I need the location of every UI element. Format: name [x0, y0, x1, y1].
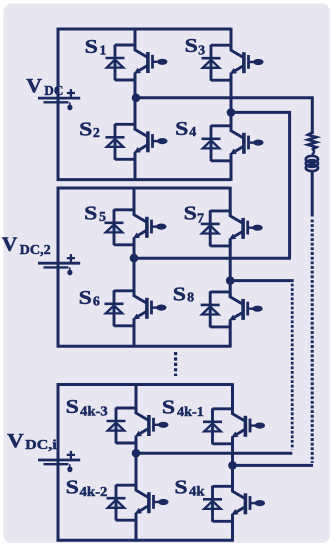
label VDC	[26, 75, 63, 98]
wire: S4k emitter to bottom rail	[231, 517, 234, 542]
wire: S4k-2 emitter to bottom rail	[135, 516, 138, 542]
node B (S3/S4 midpoint)	[227, 108, 236, 117]
label S4k	[174, 476, 204, 499]
switch S5 (IGBT with anti-parallel diode)	[105, 209, 167, 245]
wire: bridge2 top rail	[57, 187, 231, 190]
switch S4k-1 (IGBT with anti-parallel diode)	[203, 408, 265, 444]
switch S6 (IGBT with anti-parallel diode)	[105, 290, 167, 326]
node E (S4k-3/S4k-2 midpoint)	[132, 449, 141, 458]
wire: below inductor	[311, 170, 314, 217]
svg-text:5: 5	[99, 210, 106, 225]
svg-text:S: S	[84, 203, 97, 225]
wire: S3 collector	[230, 28, 233, 51]
wire: dotted load return	[311, 220, 314, 464]
wire: S5 collector	[133, 187, 136, 215]
node A (S1/S2 midpoint)	[132, 94, 141, 103]
label S4k-1	[162, 397, 204, 421]
svg-text:6: 6	[93, 294, 100, 309]
svg-text:S: S	[79, 287, 92, 309]
switch S1 (IGBT with anti-parallel diode)	[106, 45, 168, 81]
label S2	[79, 119, 100, 142]
switch S4k-2 (IGBT with anti-parallel diode)	[107, 485, 169, 521]
wire: S2 emitter to bottom rail	[134, 155, 137, 181]
label S3	[185, 35, 205, 58]
svg-text:1: 1	[99, 43, 106, 58]
svg-text:V: V	[26, 75, 42, 97]
switch S8 (IGBT with anti-parallel diode)	[201, 291, 263, 327]
svg-text:S: S	[175, 118, 188, 140]
wire: bridge1 bottom rail	[57, 178, 231, 181]
svg-text:S: S	[173, 283, 186, 305]
wire: node D toward lower cells	[230, 279, 294, 282]
svg-text:3: 3	[198, 43, 205, 58]
label VDC,2	[2, 233, 51, 257]
svg-text:4k-3: 4k-3	[80, 405, 108, 420]
switch S4 (IGBT with anti-parallel diode)	[202, 125, 264, 161]
svg-text:S: S	[66, 396, 79, 418]
label S8	[173, 283, 194, 305]
wire: bridge2 left leg middle	[133, 240, 136, 297]
svg-text:S: S	[85, 36, 98, 58]
wire: node F to load return	[233, 464, 314, 467]
node F (S4k-1/S4k midpoint)	[228, 461, 237, 470]
wire: S4k-1 collector	[231, 383, 234, 414]
wire: S8 emitter to bottom rail	[229, 322, 232, 348]
wire: cascade link into node C	[134, 257, 291, 260]
svg-text:V: V	[7, 430, 24, 452]
svg-text:S: S	[184, 203, 197, 225]
inductor L (load)	[306, 156, 318, 171]
svg-text:S: S	[79, 119, 92, 141]
svg-text:S: S	[162, 397, 175, 419]
svg-text:8: 8	[187, 291, 194, 306]
switch S7 (IGBT with anti-parallel diode)	[201, 210, 263, 246]
wire: dotted cascade link down	[291, 284, 294, 450]
wire: bridge1 left leg middle	[134, 75, 137, 130]
battery VDC,2	[38, 254, 80, 275]
wire: node B to cell 2 (cascade link)	[231, 112, 290, 258]
switch S4k-3 (IGBT with anti-parallel diode)	[107, 408, 169, 444]
wire: S6 emitter to bottom rail	[133, 321, 136, 348]
switch S2 (IGBT with anti-parallel diode)	[106, 124, 168, 160]
wire: bridge1 DC-source vertical	[57, 28, 60, 181]
wire: S4 emitter to bottom rail	[230, 156, 233, 181]
wire: bridge3 DC-source vertical	[57, 383, 60, 541]
svg-text:4k: 4k	[189, 485, 205, 500]
svg-text:S: S	[185, 35, 198, 57]
svg-text:S: S	[66, 476, 79, 498]
svg-text:4k-1: 4k-1	[177, 405, 204, 420]
wire: node A to load (top output)	[136, 98, 312, 134]
svg-text:4: 4	[189, 125, 196, 140]
svg-text:DC,i: DC,i	[25, 437, 57, 452]
label S4k-3	[66, 396, 108, 420]
wire: bridge3 right leg middle	[231, 439, 234, 492]
label S5	[84, 203, 106, 225]
node D (S7/S8 midpoint)	[226, 276, 235, 285]
wire: R to L link	[312, 149, 314, 155]
node C (S5/S6 midpoint)	[130, 254, 139, 263]
label S1	[85, 36, 107, 58]
wire: bridge1 right leg middle	[230, 75, 233, 131]
svg-text:2: 2	[93, 126, 100, 141]
switch S4k (IGBT with anti-parallel diode)	[203, 486, 265, 522]
label S7	[184, 203, 204, 227]
resistor R (load)	[308, 133, 317, 150]
label S6	[79, 287, 100, 309]
battery VDC	[38, 89, 80, 110]
wire: bridge3 left leg middle	[135, 438, 138, 491]
wire: bridge2 DC-source vertical	[57, 187, 60, 348]
label VDC,i	[7, 430, 57, 452]
svg-text:V: V	[2, 233, 18, 255]
wire: bridge3 bottom rail	[57, 539, 233, 542]
wire: bridge3 top rail	[57, 383, 233, 386]
svg-text:DC,2: DC,2	[20, 242, 51, 257]
svg-text:DC: DC	[44, 83, 63, 98]
svg-text:S: S	[174, 476, 187, 498]
wire: S1 collector	[134, 28, 137, 51]
switch S3 (IGBT with anti-parallel diode)	[202, 45, 264, 81]
wire: S4k-3 collector	[135, 383, 138, 413]
wire: cascade link into node E	[136, 452, 292, 455]
ellipsis between cell 2 and cell k	[174, 352, 177, 376]
wire: bridge2 bottom rail	[57, 345, 231, 348]
label S4k-2	[66, 476, 108, 499]
svg-text:4k-2: 4k-2	[80, 485, 108, 500]
wire: bridge1 top rail	[57, 28, 231, 31]
label S4	[175, 118, 196, 140]
svg-text:7: 7	[197, 212, 204, 227]
battery VDC,i	[38, 451, 80, 472]
wire: bridge2 right leg middle	[229, 241, 232, 298]
wire: S7 collector	[229, 187, 232, 217]
